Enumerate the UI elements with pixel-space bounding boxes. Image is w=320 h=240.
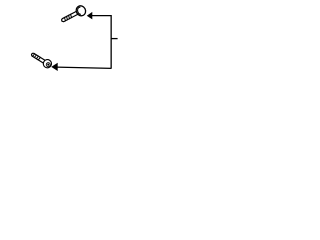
screw S1 head outer — [74, 4, 87, 17]
wire: vertical connector — [110, 15, 112, 68]
screw S2 threads — [32, 53, 40, 60]
screw S1 head inner dome arc — [76, 7, 83, 15]
arrowhead A1 (top, points left at screw 1) — [87, 13, 92, 19]
screw S1 threads — [64, 14, 72, 21]
screw S2 head inner ring — [46, 62, 52, 68]
screw S1 shaft — [61, 11, 79, 22]
screw S2 head outer — [42, 58, 53, 69]
arrowhead A2 (bottom, points left at screw 2) — [52, 63, 58, 70]
screw S2 shaft — [31, 53, 46, 64]
screw S2 head center dot — [47, 64, 49, 66]
screw S2 (bottom, head right, shaft up-left) — [30, 50, 54, 69]
background — [0, 0, 150, 83]
wire: top leader line — [91, 15, 111, 17]
screw S1 (top, head right, shaft down-left) — [59, 4, 87, 25]
wire: tick branch — [111, 38, 118, 40]
wire: bottom leader line — [57, 67, 112, 68]
